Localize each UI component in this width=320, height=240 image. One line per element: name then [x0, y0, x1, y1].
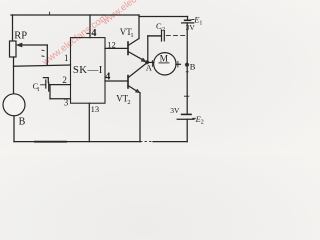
resistor RP wiper arrow — [17, 43, 23, 47]
svg-text:2: 2 — [62, 75, 67, 85]
transistor VT2 emitter — [128, 86, 138, 92]
battery E1 label — [192, 19, 194, 21]
motor left terminal tick — [151, 61, 153, 67]
capacitor C1 plates — [46, 80, 49, 91]
wire into pin 3 — [50, 98, 71, 100]
svg-text:3V: 3V — [170, 106, 180, 115]
wire bottom rail thick ink patch — [35, 141, 66, 143]
tick below node B — [186, 71, 188, 73]
svg-text:12: 12 — [107, 39, 116, 49]
transistor VT1 collector — [128, 17, 139, 46]
node A dot — [145, 60, 149, 64]
pin 4 top riser wire — [89, 15, 91, 38]
transistor VT1 emitter arrow — [141, 58, 146, 62]
svg-text:4: 4 — [91, 28, 97, 39]
svg-text:RP: RP — [14, 30, 27, 41]
wire left branch upper — [12, 15, 14, 41]
tick above top rail — [49, 12, 51, 15]
pin 4 top tick — [87, 33, 90, 35]
svg-text:1: 1 — [199, 20, 202, 26]
wire wiper drop down — [46, 45, 48, 65]
wire E2 to bottom rail — [186, 119, 188, 141]
dashed wire C2 to battery column — [166, 34, 187, 36]
tick marks near wiper drop — [42, 50, 44, 56]
jog above C1 — [43, 78, 48, 83]
svg-text:13: 13 — [91, 104, 100, 114]
transistor VT2 emitter arrow — [136, 89, 140, 93]
wire node A to C2 riser — [147, 36, 149, 62]
wire into pin 1 — [14, 65, 71, 66]
svg-text:1: 1 — [64, 53, 69, 63]
motor M underline — [159, 62, 169, 64]
svg-text:2: 2 — [127, 99, 130, 106]
wire RP wiper to corner — [21, 44, 47, 46]
svg-text:SK—I: SK—I — [73, 64, 103, 76]
wire bottom rail left segment — [14, 141, 141, 143]
svg-text:3: 3 — [64, 97, 69, 107]
IC U1 SK-I box — [71, 38, 106, 104]
svg-text:2: 2 — [201, 120, 204, 126]
transistor VT2 collector — [128, 63, 147, 78]
battery E1 long plate — [182, 22, 194, 24]
transistor VT2 emitter riser to bottom rail — [139, 93, 141, 142]
motor M circle — [154, 53, 176, 75]
microphone B circle — [3, 94, 25, 116]
svg-text:4: 4 — [105, 72, 111, 83]
transistor VT1 emitter — [128, 52, 144, 61]
svg-text:A: A — [146, 62, 153, 72]
wire into pin 2 — [49, 84, 71, 86]
svg-text:www.elecfans.com: www.elecfans.com — [40, 12, 110, 69]
battery E2 short plate — [182, 113, 191, 115]
wire pin2 down to pin3 — [49, 85, 51, 99]
wire B to bottom rail — [13, 116, 15, 142]
svg-text:1: 1 — [130, 32, 133, 39]
pin 13 riser wire — [88, 103, 90, 141]
wire top rail right segment — [139, 15, 188, 17]
svg-text:B: B — [19, 117, 26, 128]
wire bottom rail right segment — [153, 141, 187, 143]
battery E1 top wire — [187, 17, 189, 21]
battery E1 short plate — [185, 19, 191, 21]
capacitor C2 left wire — [148, 35, 162, 37]
motor right terminal tick — [177, 61, 179, 67]
svg-text:1: 1 — [37, 87, 40, 93]
wire bottom rail faded segment — [141, 140, 154, 142]
svg-text:B: B — [190, 61, 196, 71]
wire battery column E1 to E2 — [186, 23, 188, 115]
capacitor C2 plates — [162, 30, 165, 41]
battery E2 label — [193, 117, 196, 119]
wire top rail left segment — [11, 14, 139, 16]
battery E2 long plate — [177, 118, 194, 120]
capacitor C1 left stub — [41, 84, 46, 86]
wire left branch RP to B — [13, 57, 15, 94]
resistor RP body — [10, 41, 17, 57]
node B dot — [185, 63, 189, 67]
wire node A to motor — [147, 61, 154, 63]
pin 12 wire — [105, 47, 128, 49]
pin 4 right wire — [105, 80, 128, 82]
tick on battery column — [185, 95, 189, 97]
wire motor to node B (faded) — [176, 63, 180, 65]
transistor VT1 base bar — [127, 42, 129, 55]
transistor VT2 base bar — [127, 76, 129, 89]
